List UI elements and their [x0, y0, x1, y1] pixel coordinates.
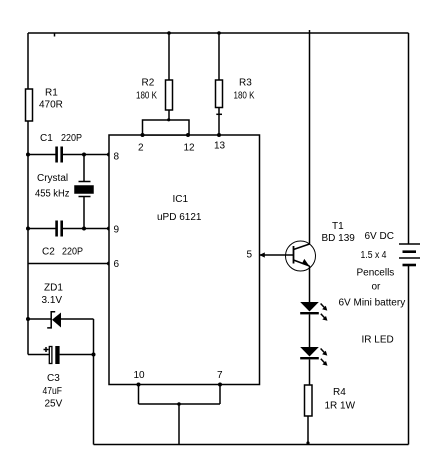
wire emitter down — [309, 266, 311, 302]
node R2 top junction — [167, 31, 171, 35]
svg-text:220P: 220P — [61, 133, 82, 144]
wire R3 top — [218, 33, 220, 80]
wire pin 7 stub — [219, 385, 221, 405]
crystal X1 — [75, 182, 93, 197]
svg-text:R2: R2 — [142, 78, 155, 89]
svg-text:8: 8 — [114, 152, 120, 163]
wire C1 row right — [63, 154, 109, 156]
svg-text:7: 7 — [217, 370, 223, 381]
wire crystal top stub — [83, 155, 85, 182]
svg-text:13: 13 — [214, 141, 226, 152]
svg-text:3.1V: 3.1V — [42, 295, 63, 306]
resistor R2 — [166, 80, 173, 110]
resistor R1 — [26, 89, 33, 121]
svg-text:180 K: 180 K — [234, 91, 255, 102]
capacitor C3 — [49, 346, 59, 364]
svg-text:IC1: IC1 — [173, 194, 189, 205]
wire pin 5 — [260, 254, 294, 256]
wire left bus lower — [27, 121, 29, 355]
node pin 12 — [186, 133, 190, 137]
capacitor C1 — [55, 147, 63, 163]
wire bottom bus — [94, 444, 409, 446]
node ZD1 left junction — [26, 317, 30, 321]
wire C1 row left — [28, 154, 56, 156]
svg-text:ZD1: ZD1 — [44, 283, 63, 294]
wire right bus lower — [408, 265, 410, 445]
svg-text:6V Mini battery: 6V Mini battery — [339, 298, 406, 309]
wire ZD1 row left — [28, 318, 51, 320]
svg-text:220P: 220P — [62, 247, 83, 258]
svg-text:IR LED: IR LED — [362, 335, 394, 346]
svg-text:C1: C1 — [40, 133, 53, 144]
wire collector up — [309, 33, 311, 245]
node crystal top junction — [82, 153, 86, 157]
node R2 box junction — [167, 118, 170, 121]
node tick collector at top bus — [309, 30, 311, 33]
node pin 10 — [137, 383, 141, 387]
node pin 13 — [217, 133, 221, 137]
wire right bus upper — [408, 33, 410, 244]
svg-text:R1: R1 — [45, 88, 58, 99]
svg-text:9: 9 — [114, 225, 120, 236]
svg-text:BD 139: BD 139 — [322, 233, 356, 244]
svg-text:1R 1W: 1R 1W — [325, 401, 356, 412]
svg-text:25V: 25V — [45, 399, 63, 410]
svg-text:1.5 x 4: 1.5 x 4 — [361, 250, 387, 261]
node C3 right junction — [92, 353, 96, 357]
zener diode ZD1 — [47, 312, 61, 328]
svg-text:C3: C3 — [47, 373, 60, 384]
wire C2 row right — [63, 228, 109, 230]
LED D2 — [300, 347, 319, 359]
svg-text:T1: T1 — [332, 221, 344, 232]
node R3 top junction — [217, 31, 221, 35]
LED D2 emission arrows — [321, 349, 328, 366]
svg-text:6: 6 — [114, 259, 120, 270]
node crystal bottom junction — [82, 227, 86, 231]
wire R2 bottom — [168, 110, 170, 120]
node pin 8 — [107, 153, 111, 157]
svg-text:2: 2 — [138, 143, 144, 154]
svg-text:47uF: 47uF — [43, 386, 63, 397]
node tick on R3 wire — [216, 113, 222, 115]
node C1 left junction — [26, 153, 30, 157]
wire C3 row right — [60, 354, 94, 356]
svg-text:12: 12 — [184, 143, 196, 154]
wire ZD1 row right — [61, 318, 94, 320]
svg-text:Pencells: Pencells — [357, 268, 395, 279]
svg-text:6V DC: 6V DC — [365, 231, 394, 242]
svg-text:R4: R4 — [333, 387, 346, 398]
node C2 left junction — [26, 227, 30, 231]
capacitor C2 — [55, 221, 63, 237]
wire ZD1 to bottom bus vertical — [93, 319, 95, 445]
wire C2 row left — [28, 228, 56, 230]
wire between LEDs — [309, 314, 311, 347]
node connector center — [177, 402, 181, 406]
wire crystal bottom stub — [83, 197, 85, 229]
svg-text:470R: 470R — [39, 100, 63, 111]
wire top bus — [28, 32, 409, 34]
wire LED2 to R4 — [309, 359, 311, 385]
wire left bus upper — [27, 33, 29, 89]
svg-text:R3: R3 — [239, 78, 252, 89]
svg-text:10: 10 — [134, 370, 146, 381]
LED D1 emission arrows — [321, 304, 328, 321]
wire R3 bottom — [218, 108, 220, 136]
wire R2 top — [168, 33, 170, 80]
wire pin 10 stub — [138, 385, 140, 405]
node pin 7 — [218, 383, 222, 387]
node pin 6 — [107, 262, 111, 266]
svg-text:455 kHz: 455 kHz — [35, 189, 70, 200]
svg-text:C2: C2 — [42, 247, 55, 258]
node R4 bottom junction — [306, 441, 309, 444]
LED D1 — [300, 302, 319, 314]
svg-text:or: or — [372, 282, 382, 293]
IC U1 body — [109, 135, 260, 385]
svg-text:Crystal: Crystal — [37, 173, 68, 184]
wire pin 6 row — [28, 263, 109, 265]
node tick on top bus — [54, 33, 56, 37]
svg-text:180 K: 180 K — [136, 91, 157, 102]
wire pins 10-7 connector — [139, 403, 221, 405]
resistor R4 — [305, 385, 313, 416]
wire center stem to bottom bus — [178, 404, 180, 445]
node pin 2 — [141, 133, 145, 137]
transistor T1 — [286, 241, 316, 271]
svg-text:uPD 6121: uPD 6121 — [157, 212, 202, 223]
wire R4 bottom — [307, 416, 309, 445]
node pin 9 — [107, 227, 111, 231]
capacitor C3 polarity plus — [44, 347, 49, 352]
svg-text:5: 5 — [247, 250, 253, 261]
battery BT1 — [399, 244, 420, 265]
box connector pins 2-12 — [143, 120, 190, 135]
arrow pin 5 into IC — [259, 252, 265, 257]
wire C3 row left — [28, 354, 52, 356]
resistor R3 — [216, 80, 223, 108]
